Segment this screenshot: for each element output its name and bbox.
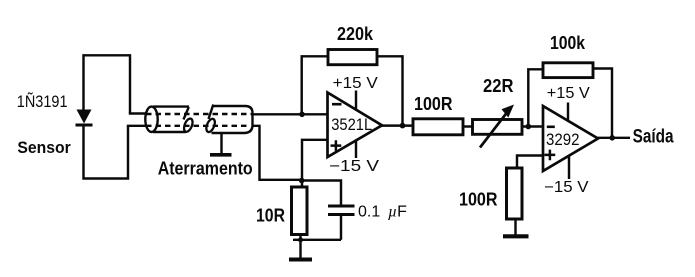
svg-text:100k: 100k bbox=[550, 33, 586, 53]
wire 100R to 22R bbox=[463, 125, 473, 127]
cable inner conductor (dashed, bottom) bbox=[146, 125, 249, 127]
svg-text:+15 V: +15 V bbox=[547, 85, 591, 102]
resistor 100R (to ground) bbox=[507, 168, 523, 219]
node junction (output / feedback) bbox=[400, 123, 406, 129]
wire 22R to U2 inverting input bbox=[522, 125, 543, 127]
ground (below 100R) bbox=[503, 234, 529, 238]
wire U2 + input bbox=[517, 156, 543, 169]
svg-text:−15 V: −15 V bbox=[544, 179, 589, 196]
resistor 100k bbox=[543, 63, 593, 78]
wire cable shield to ground bbox=[220, 133, 222, 154]
resistor 100R (series) bbox=[413, 119, 463, 135]
wire cable lower conductor down bbox=[252, 126, 302, 180]
wire feedback right vertical bbox=[377, 56, 403, 125]
U1 V+ pin bbox=[355, 91, 357, 111]
shielded cable section 1 bbox=[145, 107, 194, 133]
wire 10R bottom stub bbox=[299, 235, 301, 259]
wire 10R top branch to capacitor bbox=[302, 181, 341, 205]
wire feedback left vertical bbox=[302, 56, 328, 114]
op-amp U1 3521L bbox=[328, 93, 383, 158]
svg-text:10R: 10R bbox=[256, 206, 285, 226]
U2 V- pin bbox=[568, 156, 570, 180]
svg-text:0.1 µF: 0.1 µF bbox=[358, 204, 407, 221]
node junction (input / feedback) bbox=[299, 112, 305, 118]
wire 100k feedback right vertical bbox=[593, 69, 612, 138]
wire U2 output bbox=[597, 137, 631, 139]
svg-text:220k: 220k bbox=[337, 24, 374, 44]
wire bottom rail bbox=[293, 239, 341, 241]
ground (below 10R) bbox=[289, 258, 312, 262]
svg-text:100R: 100R bbox=[459, 190, 498, 210]
node junction (ground rail) bbox=[298, 237, 303, 242]
U1 plus sign bbox=[331, 140, 342, 151]
svg-text:−15 V: −15 V bbox=[329, 158, 380, 175]
svg-text:+15 V: +15 V bbox=[333, 75, 379, 92]
ground (Aterramento) bbox=[210, 153, 232, 157]
svg-text:Saída: Saída bbox=[633, 127, 674, 148]
wire op-amp + input bbox=[302, 140, 328, 187]
U1 V- pin bbox=[355, 141, 357, 158]
resistor 220k bbox=[328, 50, 377, 65]
shielded cable section 2 bbox=[205, 105, 253, 134]
svg-text:1Ñ3191: 1Ñ3191 bbox=[17, 92, 68, 111]
U2 V+ pin bbox=[567, 103, 569, 122]
U2 plus sign bbox=[545, 150, 556, 161]
cable inner conductor (dashed, top) bbox=[146, 113, 251, 115]
svg-text:22R: 22R bbox=[483, 76, 514, 96]
op-amp U2 3292 bbox=[543, 106, 598, 171]
resistor 10R bbox=[292, 187, 308, 235]
wire sensor bottom to cable bbox=[127, 125, 146, 127]
node junction (U2 input / feedback) bbox=[526, 124, 532, 130]
wire 100k feedback left vertical bbox=[528, 69, 543, 126]
wire capacitor bottom to rail bbox=[340, 215, 342, 240]
wire sensor top to cable bbox=[129, 112, 146, 114]
sensor box bbox=[84, 55, 131, 178]
svg-text:100R: 100R bbox=[414, 94, 453, 114]
variable resistor 22R bbox=[473, 105, 523, 148]
wire cable to op-amp inverting input bbox=[251, 113, 328, 115]
node junction (output / Saida) bbox=[609, 135, 615, 141]
wire U1 output bbox=[381, 124, 413, 126]
node junction (+ input / 10R / cap) bbox=[299, 178, 305, 184]
wire 100R bottom stub bbox=[514, 219, 516, 235]
svg-text:Aterramento: Aterramento bbox=[158, 159, 253, 179]
U1 minus sign bbox=[332, 103, 342, 106]
capacitor 0.1uF bbox=[328, 206, 355, 215]
diode D1 (sensor) bbox=[76, 110, 93, 126]
svg-text:Sensor: Sensor bbox=[17, 139, 71, 157]
svg-text:3292: 3292 bbox=[546, 130, 580, 149]
svg-text:3521L: 3521L bbox=[331, 115, 372, 134]
U2 minus sign bbox=[547, 126, 555, 129]
